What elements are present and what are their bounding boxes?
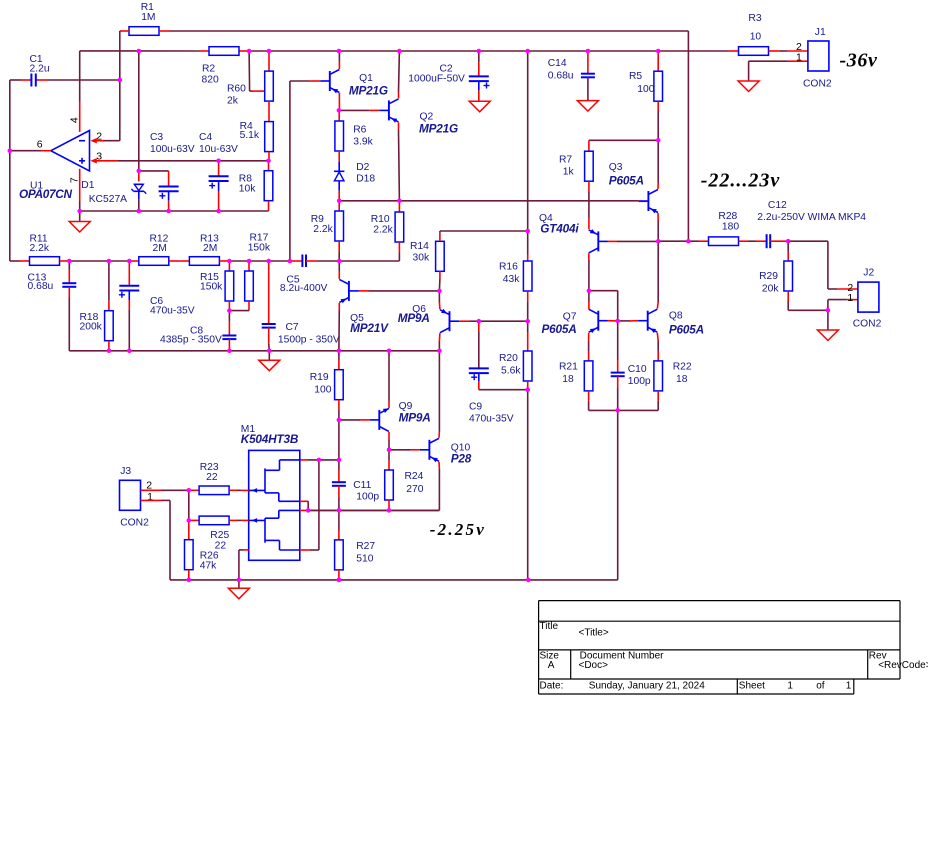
svg-text:<Title>: <Title> <box>579 628 609 639</box>
wire x618 to ground rail <box>617 410 619 580</box>
svg-text:R7: R7 <box>559 155 572 166</box>
svg-text:2.2k: 2.2k <box>30 243 50 254</box>
svg-text:R28: R28 <box>718 211 737 222</box>
op-amp pin 4 wire <box>79 51 81 132</box>
svg-text:R5: R5 <box>629 71 642 82</box>
label C5 <box>280 275 328 294</box>
junction -36V rail <box>267 49 272 54</box>
wire R7 link <box>589 140 658 151</box>
svg-text:K504HT3B: K504HT3B <box>241 432 299 446</box>
svg-text:R29: R29 <box>759 271 778 282</box>
ground mid rail <box>259 360 280 371</box>
svg-text:<RevCode>: <RevCode> <box>878 660 928 671</box>
resistor R26 <box>185 540 194 570</box>
wire R7 bottom lead <box>588 181 590 229</box>
wire C6 bottom lead <box>128 291 130 351</box>
junction -36V rail <box>656 49 661 54</box>
wire Q7-Q8 base link <box>618 320 638 322</box>
capacitor C7 <box>262 324 276 328</box>
junction rail y211 <box>137 209 142 214</box>
wire feedback vertical x688 <box>687 31 689 241</box>
wire M1 source1 jog <box>300 501 308 510</box>
label R27 <box>356 541 375 565</box>
svg-text:10k: 10k <box>239 184 256 195</box>
wire C12 right <box>770 241 828 289</box>
label R3 <box>748 13 761 43</box>
capacitor C8 <box>222 336 236 340</box>
dual-FET M1 body <box>249 450 300 560</box>
resistor R11 <box>30 257 60 266</box>
svg-text:1: 1 <box>847 292 853 304</box>
svg-text:P605A: P605A <box>669 323 704 337</box>
junction y261 <box>288 259 293 264</box>
svg-text:R3: R3 <box>748 13 761 24</box>
label R24 <box>405 471 424 495</box>
junction R19/Q9 base <box>337 418 342 423</box>
svg-text:100p: 100p <box>628 376 651 387</box>
junction rail y211 <box>77 209 82 214</box>
wire ground rail y211 <box>80 210 269 212</box>
svg-text:4: 4 <box>69 117 81 123</box>
svg-text:C10: C10 <box>628 364 647 375</box>
svg-text:D1: D1 <box>81 180 94 191</box>
wire M1 ground stub <box>238 580 240 588</box>
ground C14 <box>577 101 598 112</box>
junction y261 <box>107 259 112 264</box>
svg-text:R27: R27 <box>356 541 375 552</box>
resistor R5 <box>654 71 663 101</box>
junction D1 top <box>137 169 142 174</box>
label Q8 <box>669 311 704 337</box>
wire R4 bottom lead <box>268 152 270 161</box>
wire M1 bottom-right <box>300 460 319 550</box>
capacitor C5 <box>302 255 306 268</box>
capacitor C6 <box>119 286 139 298</box>
wire R6 top lead <box>338 110 340 121</box>
junction op-amp output <box>8 148 13 153</box>
svg-text:Sheet: Sheet <box>739 680 765 691</box>
wire Q7 emitter <box>588 333 590 361</box>
wire C10 top lead <box>617 321 619 373</box>
wire C8 top lead <box>228 311 230 336</box>
wire C11 bottom lead <box>338 486 340 511</box>
wire R16 top lead <box>527 255 529 262</box>
svg-text:1: 1 <box>796 52 802 64</box>
junction y261 <box>227 259 232 264</box>
label Q3 <box>609 162 644 188</box>
op-amp U1 pin numbers <box>37 117 103 183</box>
svg-text:MP9A: MP9A <box>398 311 430 325</box>
resistor R13 <box>189 257 219 266</box>
wire R28 left <box>658 240 708 242</box>
label C7 <box>278 322 340 345</box>
junction C12/R29 <box>786 239 791 244</box>
junction R16/R20 <box>525 319 530 324</box>
resistor R8 <box>264 171 273 201</box>
junction -36V rail <box>137 49 142 54</box>
svg-text:22: 22 <box>206 472 218 483</box>
wire Q7 base <box>608 320 618 322</box>
label C12 <box>757 200 866 223</box>
wire J2 ground stub <box>827 310 829 330</box>
junction -36V rail <box>525 49 530 54</box>
svg-text:Title: Title <box>540 621 559 632</box>
junction -36V rail <box>337 49 342 54</box>
svg-text:43k: 43k <box>503 274 520 285</box>
junction y261 <box>67 259 72 264</box>
capacitor C12 <box>767 234 771 248</box>
svg-text:R60: R60 <box>227 84 246 95</box>
label R23 <box>200 462 219 483</box>
svg-text:R16: R16 <box>499 262 518 273</box>
svg-text:8.2u-400V: 8.2u-400V <box>280 283 328 294</box>
junction rail y211 <box>216 209 221 214</box>
wire R14 top <box>440 231 528 241</box>
wire Q1 base <box>290 80 320 82</box>
resistor R19 <box>335 370 344 400</box>
svg-text:7: 7 <box>68 177 80 183</box>
svg-text:R24: R24 <box>405 471 424 482</box>
wire Q6 emitter <box>438 333 441 351</box>
svg-text:J3: J3 <box>120 466 131 477</box>
wire Q9base-C11 <box>338 420 340 460</box>
wire R15 top lead <box>228 261 230 271</box>
junction J3.2/R23 <box>187 488 192 493</box>
wire C2 bottom lead <box>478 81 480 101</box>
label Q4 <box>539 213 579 236</box>
wire R60-R4 link <box>268 101 270 122</box>
label R26 <box>200 550 219 571</box>
dual-FET M1 fet2 <box>249 510 300 550</box>
svg-text:R20: R20 <box>499 353 518 364</box>
resistor R14 <box>436 241 445 271</box>
label Q1 <box>349 73 388 98</box>
svg-text:P28: P28 <box>451 452 472 466</box>
label Q2 <box>419 112 458 136</box>
resistor R1 <box>129 27 159 36</box>
svg-text:10u-63V: 10u-63V <box>199 144 238 155</box>
svg-text:100: 100 <box>637 84 654 95</box>
label R25 <box>210 530 229 551</box>
svg-text:D18: D18 <box>356 173 375 184</box>
svg-text:100p: 100p <box>356 492 379 503</box>
svg-text:R21: R21 <box>559 362 578 373</box>
svg-text:R22: R22 <box>673 362 692 373</box>
capacitor C2 <box>469 76 490 88</box>
junction C1/R1/pin2 <box>118 78 123 83</box>
svg-text:2.2k: 2.2k <box>313 224 333 235</box>
junction C10 bottom <box>615 408 620 413</box>
svg-text:OPA07CN: OPA07CN <box>19 187 73 201</box>
junction -36V rail <box>586 49 591 54</box>
wire Q8 emitter <box>656 333 659 361</box>
wire C4 top lead <box>218 161 220 177</box>
wire R6-D2 link <box>338 151 340 162</box>
wire Q2 base <box>339 109 379 111</box>
wire M1 drain wire <box>300 459 339 461</box>
label R19 <box>310 372 332 396</box>
wire R3-J1 <box>769 50 808 52</box>
wire C1 horizontal <box>10 79 120 81</box>
wire C3 bottom lead <box>168 191 170 211</box>
svg-text:R2: R2 <box>202 64 215 75</box>
junction -36V rail <box>477 49 482 54</box>
junction rail y211 <box>166 209 171 214</box>
wire ground rail y351 <box>69 350 439 352</box>
resistor R28 <box>709 237 739 246</box>
resistor R12 <box>139 257 169 266</box>
wire R27 top lead <box>338 530 340 540</box>
resistor R18 <box>105 311 114 341</box>
wire C1 left vertical <box>9 80 11 261</box>
wire Q1 base vertical <box>289 81 291 261</box>
svg-text:2M: 2M <box>203 243 217 254</box>
wire C11-R27 <box>338 510 340 530</box>
svg-text:P605A: P605A <box>609 174 644 188</box>
wire -36V rail <box>80 50 729 52</box>
label C4 <box>199 132 238 155</box>
svg-text:C4: C4 <box>199 132 212 143</box>
wire Q5 emitter <box>338 303 340 351</box>
label -36v <box>840 49 878 71</box>
wire ground stub mid <box>268 351 270 360</box>
junction Q5 base node <box>437 289 442 294</box>
label R6 <box>353 125 373 148</box>
wire Q2 collector <box>398 51 401 98</box>
label C11 <box>353 480 379 503</box>
junction Q3e/Q8c/R28 <box>656 239 661 244</box>
wire Q10 collector <box>438 351 440 438</box>
resistor R60 <box>265 71 274 101</box>
label R18 <box>80 312 103 333</box>
junction rail y351 <box>107 349 112 354</box>
transistor Q3 <box>639 190 658 214</box>
wire Q6 base <box>459 320 528 322</box>
svg-text:820: 820 <box>202 75 219 86</box>
svg-text:Sunday, January 21, 2024: Sunday, January 21, 2024 <box>589 680 705 691</box>
label R15 <box>200 272 223 293</box>
wire R19 bottom lead <box>338 400 340 420</box>
svg-text:MP21G: MP21G <box>419 121 458 135</box>
wire C9 bottom lead <box>479 373 528 390</box>
svg-text:200k: 200k <box>80 322 103 333</box>
label R20 <box>499 353 521 377</box>
svg-text:Q3: Q3 <box>609 162 623 173</box>
svg-text:1: 1 <box>787 680 793 691</box>
junction feedback/R28 <box>686 239 691 244</box>
wire C7 top lead <box>268 261 270 324</box>
svg-text:KC527A: KC527A <box>89 194 127 205</box>
resistor R22 <box>654 361 663 391</box>
junction y261 <box>127 259 132 264</box>
label C13 <box>28 272 54 292</box>
wire emitter rail y410 <box>589 391 659 411</box>
label Q5 <box>350 313 389 335</box>
wire R2 left lead <box>199 50 209 52</box>
label D2 <box>356 162 375 184</box>
wire R25 right lead <box>229 519 249 521</box>
svg-text:R14: R14 <box>410 241 429 252</box>
wire Q3e to Q8c <box>657 241 659 302</box>
svg-text:C7: C7 <box>286 322 299 333</box>
transistor Q9 <box>370 408 389 431</box>
wire bottom ground rail <box>170 579 618 581</box>
transistor Q7 <box>589 309 608 333</box>
svg-text:R6: R6 <box>353 125 366 136</box>
wire R8 bottom lead <box>268 201 270 211</box>
wire y261 R12-R13 <box>169 260 190 262</box>
svg-text:5.1k: 5.1k <box>240 130 260 141</box>
wire R10 bottom lead <box>339 242 399 261</box>
wire M1 drain2 out <box>300 509 339 511</box>
svg-text:30k: 30k <box>413 253 430 264</box>
wire R1 left vertical <box>119 31 121 141</box>
wire J1 pin1 <box>749 61 808 81</box>
svg-text:Date:: Date: <box>540 680 564 691</box>
junction Q4c node <box>587 288 592 293</box>
junction rail y351 <box>267 349 272 354</box>
label D1 <box>81 180 127 205</box>
svg-text:47k: 47k <box>200 561 217 572</box>
resistor R10 <box>395 212 404 242</box>
wire Q3 collector <box>657 140 659 189</box>
junction y261 <box>247 259 252 264</box>
title block text <box>540 621 928 692</box>
wire Q5 collector <box>338 261 340 279</box>
svg-text:MP21V: MP21V <box>350 321 389 335</box>
junction R25 left <box>187 518 192 523</box>
svg-text:C12: C12 <box>768 200 787 211</box>
svg-text:GT404i: GT404i <box>540 222 579 236</box>
wire J3 divider vertical <box>188 490 190 520</box>
junction -36V rail <box>247 49 252 54</box>
label R1 <box>141 2 156 23</box>
label R16 <box>499 262 520 286</box>
svg-text:<Doc>: <Doc> <box>579 660 609 671</box>
svg-text:1M: 1M <box>141 12 155 23</box>
wire C9 top lead <box>478 321 480 368</box>
wire R11 left lead <box>10 260 30 262</box>
wire Q1 emitter <box>338 93 340 110</box>
svg-text:2M: 2M <box>153 243 167 254</box>
wire C13 bottom lead <box>68 287 70 351</box>
transistor Q8 <box>638 309 657 333</box>
wire D1 bottom lead <box>138 200 140 211</box>
wire R9 top lead <box>338 201 340 211</box>
wire y261 R11-R12 <box>60 260 139 262</box>
junction rail y351 <box>127 349 132 354</box>
junction C11 top <box>337 458 342 463</box>
svg-text:20k: 20k <box>762 283 779 294</box>
svg-text:A: A <box>548 660 555 671</box>
wire R1 right to x688 <box>159 30 688 32</box>
op-amp pin 3 wire <box>90 158 268 163</box>
svg-text:3.9k: 3.9k <box>353 137 373 148</box>
wire R28-C12 <box>739 240 767 242</box>
resistor R21 <box>584 361 593 391</box>
diode D2 <box>334 162 344 191</box>
svg-text:470u-35V: 470u-35V <box>150 305 195 316</box>
wire ground stub U1 <box>79 211 81 222</box>
wire C2 top lead <box>478 51 480 76</box>
wire Q9 vertical top <box>388 351 390 408</box>
resistor R2 <box>209 47 239 56</box>
svg-text:Q8: Q8 <box>669 311 683 322</box>
resistor R23 <box>199 486 229 495</box>
label R29 <box>759 271 779 294</box>
label Q9 <box>399 401 431 424</box>
svg-text:1k: 1k <box>563 167 575 178</box>
wire R3 left lead <box>729 50 739 52</box>
wire J3 pin1 <box>141 500 171 580</box>
svg-text:-36v: -36v <box>840 49 878 71</box>
wire rail y201 <box>339 200 647 203</box>
label R22 <box>673 362 692 386</box>
capacitor C3 <box>159 187 179 199</box>
svg-text:0.68u: 0.68u <box>548 70 574 81</box>
wire Q1 collector <box>338 51 340 69</box>
transistor Q10 <box>420 438 439 462</box>
svg-text:C3: C3 <box>150 132 163 143</box>
junction R4/R8/pin3 <box>266 159 271 164</box>
label Q7 <box>542 312 577 337</box>
junction Q10 base/R24 <box>387 448 392 453</box>
op-amp pin 7 wire <box>79 169 81 211</box>
wire y261 R13-C5 <box>219 260 302 262</box>
label J2 <box>847 267 881 329</box>
svg-text:10: 10 <box>750 32 762 43</box>
label R7 <box>559 155 574 178</box>
svg-text:150k: 150k <box>200 282 223 293</box>
junction y261 <box>337 259 342 264</box>
wire Q2 emitter <box>398 122 401 200</box>
wire Q3 emitter <box>657 213 659 241</box>
wire Q4 base <box>608 240 658 242</box>
wire R60 top lead <box>268 51 270 71</box>
junction R20/C9 bottom <box>525 387 530 392</box>
svg-text:2.2u-250V WIMA MKP4: 2.2u-250V WIMA MKP4 <box>757 212 866 223</box>
capacitor C13 <box>62 283 76 287</box>
resistor R3 <box>739 47 769 56</box>
svg-text:5.6k: 5.6k <box>501 365 521 376</box>
capacitor C11 <box>332 482 346 486</box>
wire D1 top lead <box>138 171 140 182</box>
wire M1 bottom-left <box>239 550 249 580</box>
svg-text:P605A: P605A <box>542 322 577 336</box>
label C1 <box>30 54 50 74</box>
wire R1 left lead <box>120 30 129 32</box>
junction Q1e/Q2b <box>337 108 342 113</box>
wire Q7 collector <box>588 291 590 310</box>
wire Q8 collector <box>656 302 659 309</box>
wire J3 pin2 <box>141 489 189 491</box>
wire R15 bottom lead <box>228 301 230 311</box>
junction R27 bottom <box>337 578 342 583</box>
svg-text:J1: J1 <box>815 27 826 38</box>
wire C10 bottom lead <box>617 376 619 410</box>
junction rail y351 <box>337 349 342 354</box>
capacitor C9 <box>469 368 489 380</box>
resistor R24 <box>385 470 394 500</box>
resistor R16 <box>523 261 532 291</box>
label R8 <box>239 174 256 195</box>
svg-text:-22...23v: -22...23v <box>701 169 781 191</box>
op-amp U1 labels <box>19 181 73 202</box>
svg-text:18: 18 <box>562 374 574 385</box>
resistor R17 <box>245 271 254 301</box>
junction R14 top <box>525 229 530 234</box>
label C6 <box>150 296 195 317</box>
